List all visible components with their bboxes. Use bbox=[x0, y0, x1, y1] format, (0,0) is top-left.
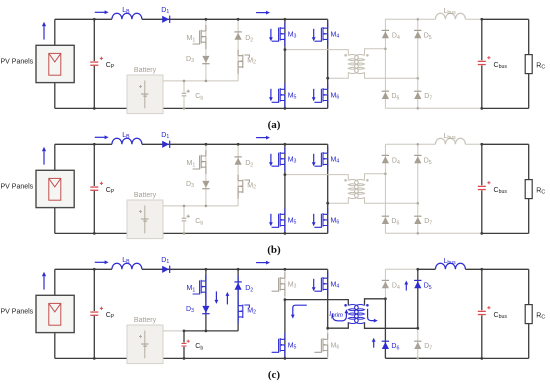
svg-text:Battery: Battery bbox=[134, 317, 157, 324]
svg-text:M1: M1 bbox=[187, 285, 196, 293]
svg-text:M5: M5 bbox=[288, 93, 297, 101]
svg-text:(c): (c) bbox=[268, 369, 281, 381]
svg-text:M1: M1 bbox=[187, 35, 196, 43]
svg-text:D7: D7 bbox=[424, 343, 432, 351]
svg-text:M5: M5 bbox=[288, 343, 297, 351]
svg-text:D4: D4 bbox=[392, 283, 400, 291]
svg-text:CP: CP bbox=[106, 62, 115, 70]
svg-text:Cb: Cb bbox=[195, 343, 203, 351]
svg-text:M2: M2 bbox=[247, 58, 256, 66]
svg-text:M2: M2 bbox=[247, 308, 256, 316]
svg-text:M6: M6 bbox=[331, 93, 340, 101]
svg-text:M4: M4 bbox=[331, 31, 340, 39]
svg-text:RC: RC bbox=[536, 312, 545, 320]
svg-text:PV Panels: PV Panels bbox=[1, 59, 34, 66]
svg-text:M3: M3 bbox=[288, 31, 297, 39]
svg-text:Battery: Battery bbox=[134, 67, 157, 74]
svg-text:D2: D2 bbox=[245, 35, 253, 43]
svg-text:D3: D3 bbox=[186, 306, 194, 314]
svg-text:CP: CP bbox=[106, 312, 115, 320]
svg-text:(b): (b) bbox=[267, 244, 281, 256]
svg-text:D6: D6 bbox=[391, 93, 399, 101]
svg-text:(a): (a) bbox=[268, 119, 281, 131]
svg-text:LB: LB bbox=[122, 257, 130, 265]
svg-text:D7: D7 bbox=[424, 93, 432, 101]
svg-text:Iprim: Iprim bbox=[329, 311, 343, 319]
svg-text:D4: D4 bbox=[392, 33, 400, 41]
svg-text:D1: D1 bbox=[161, 257, 169, 265]
svg-text:Lbus: Lbus bbox=[444, 8, 457, 16]
svg-text:M4: M4 bbox=[331, 281, 340, 289]
svg-text:D6: D6 bbox=[391, 343, 399, 351]
svg-text:Cbus: Cbus bbox=[494, 62, 508, 70]
svg-text:M6: M6 bbox=[331, 343, 340, 351]
svg-text:Cbus: Cbus bbox=[494, 312, 508, 320]
svg-text:M3: M3 bbox=[288, 281, 297, 289]
svg-text:PV Panels: PV Panels bbox=[1, 309, 34, 316]
svg-text:Cb: Cb bbox=[195, 93, 203, 101]
svg-text:D3: D3 bbox=[186, 56, 194, 64]
svg-text:D1: D1 bbox=[161, 7, 169, 15]
svg-text:RC: RC bbox=[536, 62, 545, 70]
svg-text:Lbus: Lbus bbox=[444, 258, 457, 266]
svg-text:D5: D5 bbox=[424, 283, 432, 291]
svg-text:D5: D5 bbox=[424, 33, 432, 41]
svg-text:D2: D2 bbox=[245, 285, 253, 293]
svg-text:LB: LB bbox=[122, 7, 130, 15]
